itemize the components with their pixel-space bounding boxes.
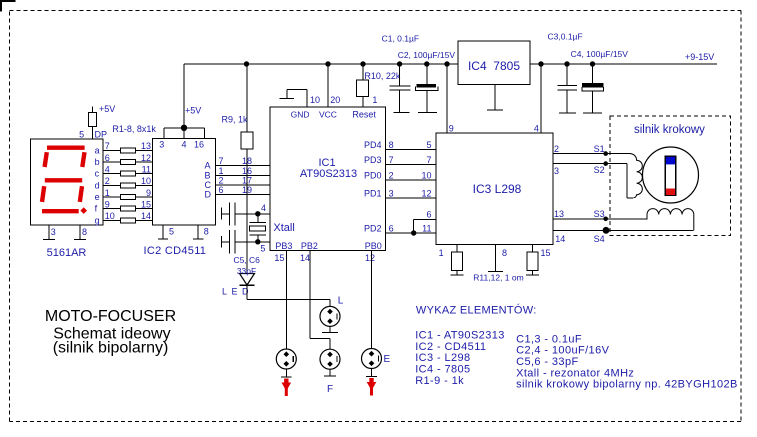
ground symbol IC1 pin 10	[279, 89, 307, 107]
svg-text:L: L	[338, 296, 344, 307]
wire IC2 power bracket pins 3-4-16	[164, 128, 205, 139]
wire +5V rail left segment	[184, 63, 458, 65]
IC U1 AT90S2313 body	[270, 107, 386, 251]
svg-text:silnik krokowy bipolarny np. 4: silnik krokowy bipolarny np. 42BYGH102B	[516, 379, 738, 391]
svg-text:(silnik bipolarny): (silnik bipolarny)	[53, 340, 169, 357]
svg-text:12: 12	[365, 253, 375, 263]
wire PB3 to connector	[286, 251, 288, 349]
wire IC3 pin 3 to S2	[553, 164, 633, 198]
svg-text:1: 1	[219, 166, 224, 176]
svg-text:15: 15	[541, 248, 551, 258]
red arrow marker right	[367, 378, 377, 396]
junction rail-R10	[360, 61, 365, 66]
wire PB2 to connector F	[310, 251, 330, 350]
ground R11	[451, 271, 464, 276]
resistor R12	[527, 252, 538, 271]
svg-text:silnik krokowy: silnik krokowy	[634, 124, 705, 136]
svg-text:IC4 7805: IC4 7805	[468, 59, 520, 73]
svg-text:6: 6	[105, 153, 110, 163]
svg-text:5: 5	[260, 244, 265, 254]
inductor winding 1	[630, 154, 642, 198]
connector L	[320, 306, 340, 326]
IC2 ground pin 8	[193, 225, 203, 239]
wire R7 to IC2 pin 14	[136, 219, 153, 221]
connector F	[320, 349, 340, 369]
svg-text:AT90S2313: AT90S2313	[300, 168, 357, 180]
wire display pin 1 to R5	[103, 196, 121, 198]
wire R3 to IC2 pin 11	[136, 173, 153, 175]
svg-text:C1, 0.1µF: C1, 0.1µF	[382, 34, 420, 44]
junction rail-R9	[244, 61, 249, 66]
svg-text:1: 1	[439, 248, 444, 258]
wire IC3 pin 14 to S4	[553, 229, 694, 231]
svg-text:+9-15V: +9-15V	[685, 52, 714, 62]
ground IC3 pin 8	[488, 244, 503, 271]
svg-text:R1-8, 8x1k: R1-8, 8x1k	[112, 124, 156, 134]
wire IC3 pin 15 to R12	[532, 244, 534, 252]
svg-text:PD0: PD0	[364, 170, 382, 180]
display segment b	[82, 152, 84, 167]
corner mark top-left	[0, 0, 16, 12]
junction rail-C1	[397, 61, 402, 66]
junction S2	[603, 161, 608, 166]
svg-text:IC2 - CD4511: IC2 - CD4511	[415, 341, 486, 353]
junction crystal top	[255, 211, 260, 216]
svg-text:8: 8	[389, 140, 394, 150]
resistor R10	[357, 80, 369, 97]
svg-text:15: 15	[274, 253, 284, 263]
svg-text:R1-9 - 1k: R1-9 - 1k	[415, 375, 464, 387]
junction S4	[603, 227, 610, 234]
wire PD2 branch to IC3 pin 6	[414, 219, 437, 233]
resistor R3	[121, 171, 136, 176]
svg-text:C: C	[205, 180, 212, 190]
ground 7805	[487, 85, 503, 111]
wire R2 to IC2 pin 12	[136, 161, 153, 163]
capacitor C2 electrolytic	[416, 64, 438, 113]
wire IC3 pin 2 to S1	[553, 153, 631, 155]
wire Reset to R10	[362, 97, 364, 108]
svg-text:S3: S3	[594, 209, 605, 219]
svg-text:9: 9	[449, 123, 454, 133]
svg-text:PD1: PD1	[364, 188, 382, 198]
svg-text:IC2 CD4511: IC2 CD4511	[144, 245, 207, 257]
svg-text:C5,6 - 33pF: C5,6 - 33pF	[516, 356, 578, 368]
svg-text:IC4 - 7805: IC4 - 7805	[415, 364, 470, 376]
wire DP pullup top	[92, 107, 94, 113]
svg-text:c: c	[95, 169, 100, 179]
svg-text:6: 6	[426, 209, 431, 219]
svg-text:10: 10	[310, 95, 320, 105]
svg-text:8: 8	[204, 227, 209, 237]
wire IC2 pin 7 to IC1 pin 18 (PB6)	[215, 165, 270, 167]
svg-text:B: B	[205, 170, 211, 180]
svg-text:GND: GND	[291, 110, 310, 120]
capacitor C4 electrolytic	[582, 64, 604, 113]
svg-text:C4, 100µF/15V: C4, 100µF/15V	[571, 49, 629, 59]
svg-text:Reset: Reset	[352, 110, 376, 120]
svg-text:PB3: PB3	[275, 241, 292, 251]
svg-text:MOTO-FOCUSER: MOTO-FOCUSER	[45, 308, 176, 325]
connector E	[362, 349, 382, 369]
svg-text:+5V: +5V	[185, 106, 201, 116]
wire rail to IC3 pin 9	[446, 64, 448, 133]
svg-text:2: 2	[389, 170, 394, 180]
wire IC1 pin 8 (PD4) to IC3 pin 5	[386, 148, 437, 150]
wire R4 to IC2 pin 10	[136, 184, 153, 186]
svg-text:3: 3	[159, 139, 164, 149]
svg-text:5: 5	[169, 227, 174, 237]
wire rail to R9	[246, 64, 248, 132]
display segment c	[80, 186, 82, 202]
IC2 ground pin 5	[158, 225, 168, 239]
svg-text:D: D	[205, 190, 212, 200]
IC U4 7805 body	[458, 41, 530, 85]
wire display pin 4 to R3	[103, 173, 121, 175]
resistor R6	[121, 206, 136, 211]
svg-text:10: 10	[421, 170, 431, 180]
svg-text:e: e	[95, 192, 100, 202]
svg-text:14: 14	[141, 211, 151, 221]
IC U2 CD4511 body	[152, 139, 215, 225]
crystal Xtall	[250, 214, 266, 242]
wire IC1 pin 3 (PD1) to IC3 pin 12	[386, 197, 437, 199]
svg-text:16: 16	[194, 139, 204, 149]
resistor R5	[121, 195, 136, 200]
capacitor C5	[221, 202, 235, 225]
svg-text:F: F	[327, 384, 333, 395]
junction S1	[603, 151, 608, 156]
wire PB0 to connector E	[371, 251, 373, 349]
svg-text:4: 4	[181, 139, 186, 149]
svg-text:8: 8	[82, 227, 87, 237]
svg-text:DP: DP	[95, 130, 108, 140]
svg-text:C2, 100µF/15V: C2, 100µF/15V	[398, 50, 456, 60]
svg-text:4: 4	[105, 165, 110, 175]
svg-text:1: 1	[105, 188, 110, 198]
svg-text:7: 7	[426, 155, 431, 165]
svg-text:A: A	[205, 161, 211, 171]
junction S3	[603, 217, 608, 222]
resistor R1	[121, 148, 136, 153]
wire R10 to rail	[362, 64, 364, 80]
svg-text:IC3 - L298: IC3 - L298	[415, 352, 470, 364]
svg-text:WYKAZ ELEMENTÓW:: WYKAZ ELEMENTÓW:	[416, 304, 537, 317]
capacitor C3	[558, 64, 578, 113]
svg-text:PB0: PB0	[365, 241, 382, 251]
wire IC3 pin 1 to R11	[456, 244, 458, 252]
svg-text:b: b	[95, 157, 100, 167]
svg-text:15: 15	[141, 200, 151, 210]
svg-text:PD3: PD3	[364, 155, 382, 165]
wire +5V/+9-15V rail right segment	[530, 63, 717, 65]
svg-text:3: 3	[389, 188, 394, 198]
svg-text:C5, C6: C5, C6	[233, 255, 260, 265]
svg-text:R9, 1k: R9, 1k	[222, 115, 249, 125]
junction rail-C2	[424, 61, 429, 66]
svg-text:3: 3	[51, 227, 56, 237]
resistor R11	[451, 252, 462, 271]
wire IC2 pin 6 to IC1 pin 19 (PB7)	[215, 194, 270, 196]
svg-text:S2: S2	[594, 165, 605, 175]
junction rail-pin9	[444, 61, 449, 66]
wire R6 to IC2 pin 15	[136, 208, 153, 210]
svg-text:g: g	[95, 215, 100, 225]
svg-text:PD2: PD2	[364, 224, 382, 234]
svg-text:C3,0.1µF: C3,0.1µF	[548, 32, 583, 42]
wire display pin 10 to R7	[103, 219, 121, 221]
svg-text:6: 6	[389, 224, 394, 234]
wire IC2 pin 2 to IC1 pin 17 (PB5)	[215, 184, 270, 186]
capacitor C6	[221, 230, 235, 253]
ground connector L	[322, 326, 338, 332]
svg-text:5: 5	[426, 140, 431, 150]
junction rail-pin4	[538, 61, 543, 66]
display ground pin 3	[43, 225, 55, 239]
svg-text:33pF: 33pF	[237, 266, 256, 276]
svg-text:4: 4	[261, 203, 266, 213]
display segment g	[45, 178, 82, 182]
svg-text:10: 10	[141, 176, 151, 186]
display segment e	[42, 186, 44, 202]
wire IC1 pin 6 (PD2) to IC3 pin 11	[386, 232, 437, 234]
junction rail-C3	[564, 61, 569, 66]
junction crystal bottom	[255, 239, 260, 244]
wire R1 to IC2 pin 13	[136, 149, 153, 151]
svg-text:Xtall: Xtall	[273, 222, 294, 234]
display segment d	[42, 209, 79, 213]
resistor DP pull-up	[89, 113, 97, 127]
svg-text:S4: S4	[594, 234, 605, 244]
svg-text:2: 2	[219, 176, 224, 186]
svg-text:IC1 - AT90S2313: IC1 - AT90S2313	[415, 330, 505, 342]
wire LED to connector L	[247, 285, 330, 306]
red arrow marker left	[282, 379, 292, 397]
svg-text:C1,3 - 0.1uF: C1,3 - 0.1uF	[516, 333, 582, 345]
svg-text:7: 7	[389, 155, 394, 165]
stepper motor dashed box	[610, 116, 730, 236]
svg-text:C2,4 - 100uF/16V: C2,4 - 100uF/16V	[516, 345, 609, 357]
svg-text:9: 9	[146, 188, 151, 198]
svg-text:Xtall - rezonator 4MHz: Xtall - rezonator 4MHz	[516, 367, 634, 379]
svg-text:IC3 L298: IC3 L298	[473, 182, 522, 196]
svg-text:1: 1	[372, 95, 377, 105]
svg-text:9: 9	[105, 200, 110, 210]
wire IC2 pin 1 to IC1 pin 16 (PB4)	[215, 174, 270, 176]
svg-text:5161AR: 5161AR	[47, 247, 87, 259]
junction +5V-IC2 bracket	[181, 125, 187, 131]
svg-text:PB2: PB2	[301, 241, 318, 251]
ground connector PB3 output	[281, 369, 292, 377]
resistor R9	[241, 132, 253, 149]
connector PB3 output	[276, 349, 296, 369]
resistor R2	[121, 160, 136, 165]
svg-text:12: 12	[421, 188, 431, 198]
motor rotor circle	[643, 147, 699, 203]
svg-text:10: 10	[105, 211, 115, 221]
svg-text:S1: S1	[594, 144, 605, 154]
svg-text:LED: LED	[222, 287, 253, 297]
svg-text:11: 11	[142, 165, 151, 175]
svg-text:13: 13	[141, 141, 151, 151]
svg-text:R11,12, 1 om: R11,12, 1 om	[473, 273, 523, 283]
svg-text:d: d	[95, 180, 100, 190]
svg-text:2: 2	[554, 144, 559, 154]
wire IC1 pin 2 (PD0) to IC3 pin 10	[386, 179, 437, 181]
resistor R4	[121, 183, 136, 188]
wire display pin 7 to R1	[103, 149, 121, 151]
svg-text:14: 14	[300, 253, 310, 263]
display ground pin 8	[74, 225, 86, 239]
inductor winding 2	[647, 209, 694, 231]
svg-text:6: 6	[219, 185, 224, 195]
wire display pin 9 to R6	[103, 208, 121, 210]
wire rail to IC3 pin 4	[540, 64, 542, 133]
svg-text:2: 2	[105, 176, 110, 186]
svg-text:E: E	[384, 354, 391, 365]
svg-text:7: 7	[105, 141, 110, 151]
svg-text:4: 4	[534, 123, 539, 133]
svg-text:14: 14	[555, 234, 565, 244]
junction PD2-pin6 branch	[411, 230, 416, 235]
capacitor C1	[390, 64, 411, 113]
wire display pin 2 to R4	[103, 184, 121, 186]
IC U3 L298 body	[436, 133, 553, 244]
resistor R7	[121, 218, 136, 223]
LED D1	[240, 274, 255, 286]
ground R12	[526, 271, 539, 276]
junction rail-C4	[590, 61, 595, 66]
svg-text:20: 20	[330, 95, 340, 105]
svg-text:12: 12	[141, 153, 151, 163]
wire IC1 pin 4 (XTAL) to C5	[235, 213, 270, 215]
wire IC1 pin 5 (XTAL) to C6	[235, 241, 270, 243]
display 5161AR body	[31, 139, 104, 225]
display segment f	[45, 152, 47, 167]
rotor magnet bar	[665, 156, 675, 195]
junction rail-VCC	[325, 61, 330, 66]
svg-text:3: 3	[554, 166, 559, 176]
display segment a	[47, 145, 85, 149]
svg-text:PD4: PD4	[364, 140, 382, 150]
wire +5V drop to IC2	[183, 64, 185, 128]
svg-text:5: 5	[79, 130, 84, 140]
wire DP pullup to display pin 5	[92, 127, 94, 139]
svg-text:a: a	[95, 145, 100, 155]
wire R5 to IC2 pin 9	[136, 196, 153, 198]
ground connector F	[324, 369, 336, 376]
wire IC1 pin 7 (PD3) to IC3 pin 7	[386, 163, 437, 165]
svg-text:11: 11	[422, 224, 431, 234]
svg-text:7: 7	[219, 156, 224, 166]
svg-text:+5V: +5V	[99, 104, 115, 114]
svg-text:R10, 22k: R10, 22k	[364, 71, 401, 81]
wire IC3 pin 13 to S3	[553, 215, 647, 219]
wire VCC to +5V rail	[327, 64, 329, 107]
wire display pin 6 to R2	[103, 161, 121, 163]
svg-text:VCC: VCC	[319, 110, 337, 120]
wire R9 to LED	[246, 149, 248, 274]
svg-text:13: 13	[554, 209, 564, 219]
ground connector E	[366, 369, 377, 377]
svg-text:8: 8	[502, 248, 507, 258]
display segment DP	[80, 207, 87, 214]
